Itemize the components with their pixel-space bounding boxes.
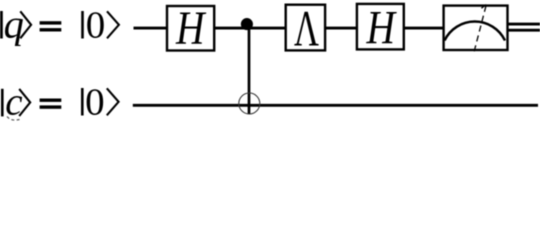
classical double wire lower [508,29,540,32]
node c equals sign [40,99,62,102]
wire control vertical [248,26,251,114]
control dot [241,18,253,30]
wire qubit segment 2 [215,27,287,30]
node q label ket bar [0,11,3,39]
svg-text:H: H [366,2,397,55]
node q equals sign [40,21,62,24]
node c label right angle bracket [19,89,30,116]
node c label under-curl artifact [7,117,20,121]
node q initial state ket bar [81,11,84,39]
wire classical bit full [133,104,538,107]
gate Lambda box [286,5,325,51]
node c initial state right angle bracket [107,88,119,115]
gate H1 box [167,6,214,51]
gate H2 box [357,4,404,50]
wire qubit segment 3 [325,27,358,30]
meter gauge arc [445,22,506,41]
node c label ket bar [1,89,4,117]
node q initial state right angle bracket [107,11,119,38]
classical double wire upper [508,23,540,26]
CNOT target circle [239,93,260,114]
meter needle [474,6,486,51]
node c initial state ket bar [81,88,84,116]
meter M box [444,6,508,50]
svg-text:Λ: Λ [294,2,319,58]
svg-text:q: q [4,2,24,47]
node q label right angle bracket [20,11,31,38]
svg-text:0: 0 [85,82,105,124]
wire qubit segment 4 [404,27,445,30]
svg-text:H: H [175,2,206,55]
meter needle arrowhead [481,5,486,9]
svg-text:0: 0 [86,5,106,47]
wire qubit segment 1 [134,27,168,30]
